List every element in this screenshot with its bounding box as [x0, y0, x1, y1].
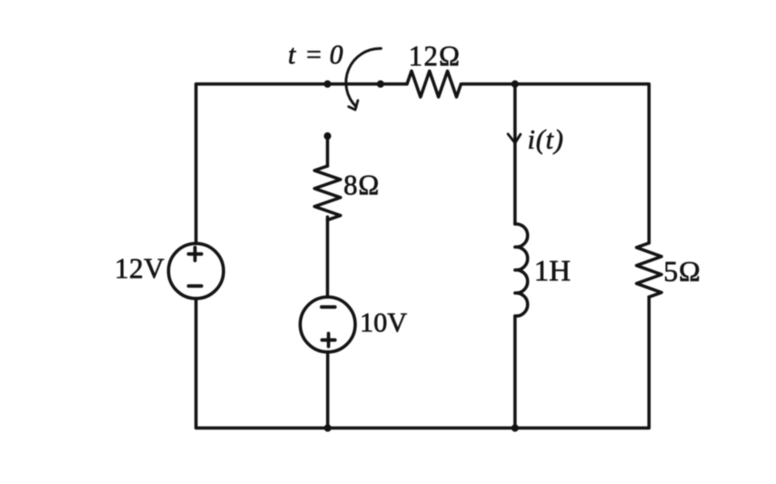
svg-text:10V: 10V [360, 307, 408, 338]
voltage source V1 12V [169, 244, 224, 299]
junction bottom middle [324, 424, 331, 431]
junction bottom inductor [511, 424, 518, 431]
svg-text:8Ω: 8Ω [344, 171, 380, 202]
node terminal below switch [324, 132, 331, 139]
wire top-right corner run [462, 84, 649, 243]
junction top inductor [511, 80, 518, 87]
wire bottom U run [196, 297, 649, 428]
svg-text:1H: 1H [534, 255, 571, 288]
svg-text:t=0: t=0 [288, 40, 344, 70]
resistor R 5ohm [637, 243, 662, 297]
svg-text:12Ω: 12Ω [409, 42, 461, 73]
inductor L 1H [515, 224, 528, 316]
wire 8ohm to source [326, 217, 329, 297]
wire left-top corner run [196, 84, 407, 244]
svg-text:i(t): i(t) [528, 125, 565, 155]
switch arc t=0 [346, 48, 381, 106]
switch node left [324, 80, 331, 87]
current arrow i(t) [508, 134, 521, 143]
switch arrowhead [349, 100, 358, 109]
svg-text:12V: 12V [115, 254, 165, 285]
svg-text:5Ω: 5Ω [664, 256, 702, 288]
wire inductor bottom [513, 316, 516, 428]
wire source to bottom [326, 352, 329, 428]
switch node right [377, 80, 384, 87]
wire inductor top [513, 84, 516, 224]
resistor R 8ohm [315, 166, 341, 220]
voltage source V2 10V [300, 297, 355, 352]
wire to 8ohm [326, 136, 329, 166]
resistor R 12ohm [407, 71, 461, 97]
